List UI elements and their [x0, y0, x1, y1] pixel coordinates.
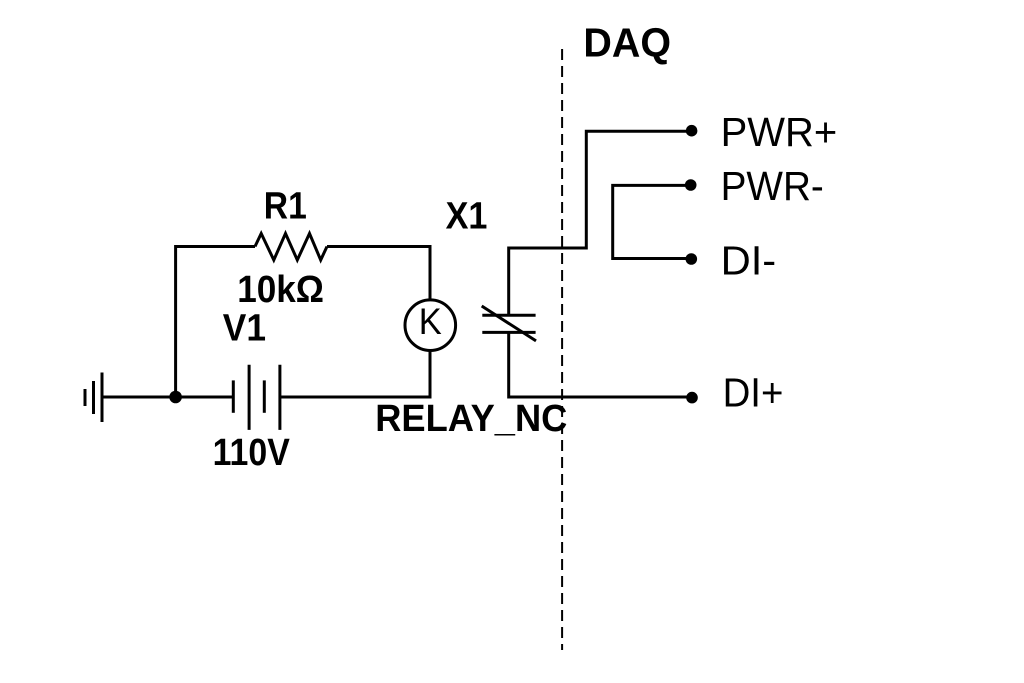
svg-text:PWR+: PWR+	[721, 109, 838, 155]
terminal dot PWR+	[686, 125, 698, 137]
terminal dot DI-	[686, 253, 698, 265]
DAQ boundary dashed line	[561, 49, 563, 650]
svg-text:X1: X1	[446, 196, 488, 238]
wire ground to battery	[102, 396, 233, 399]
svg-text:K: K	[419, 301, 442, 342]
wire contact top to PWR+	[509, 131, 692, 315]
relay coil K (U1)	[405, 300, 456, 351]
svg-text:DAQ: DAQ	[583, 19, 671, 65]
relay contact X1 (NC) bottom plate	[482, 331, 535, 334]
svg-text:RELAY_NC: RELAY_NC	[375, 398, 567, 440]
svg-text:10kΩ: 10kΩ	[237, 269, 324, 311]
node junction dot	[169, 391, 182, 404]
svg-text:PWR-: PWR-	[721, 163, 824, 209]
svg-text:V1: V1	[223, 308, 266, 350]
svg-text:DI+: DI+	[723, 370, 784, 416]
relay contact X1 (NC) slash	[482, 306, 536, 341]
wire PWR- to DI-	[613, 185, 692, 258]
relay contact X1 (NC) top plate	[482, 314, 535, 317]
svg-text:DI-: DI-	[721, 238, 777, 284]
wire resistor to coil top	[327, 247, 430, 301]
terminal dot PWR-	[685, 179, 697, 191]
battery V1	[233, 365, 280, 430]
wire coil bottom to battery	[280, 351, 430, 398]
resistor R1	[255, 234, 327, 261]
ground	[85, 373, 102, 423]
terminal dot DI+	[686, 392, 698, 404]
svg-text:110V: 110V	[213, 432, 291, 474]
wire node up and top-left to resistor	[176, 247, 255, 398]
wire contact bottom to DI+	[509, 332, 692, 397]
svg-text:R1: R1	[264, 186, 307, 228]
